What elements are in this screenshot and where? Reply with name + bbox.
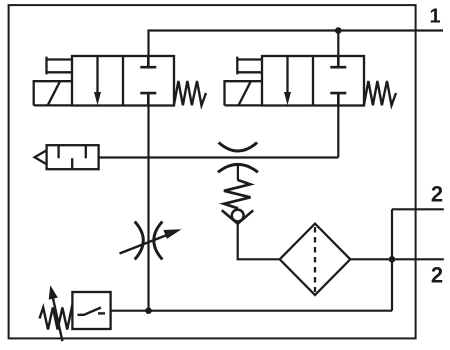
svg-text:2: 2 — [431, 263, 443, 288]
svg-text:1: 1 — [429, 5, 440, 27]
svg-text:2: 2 — [431, 182, 443, 207]
